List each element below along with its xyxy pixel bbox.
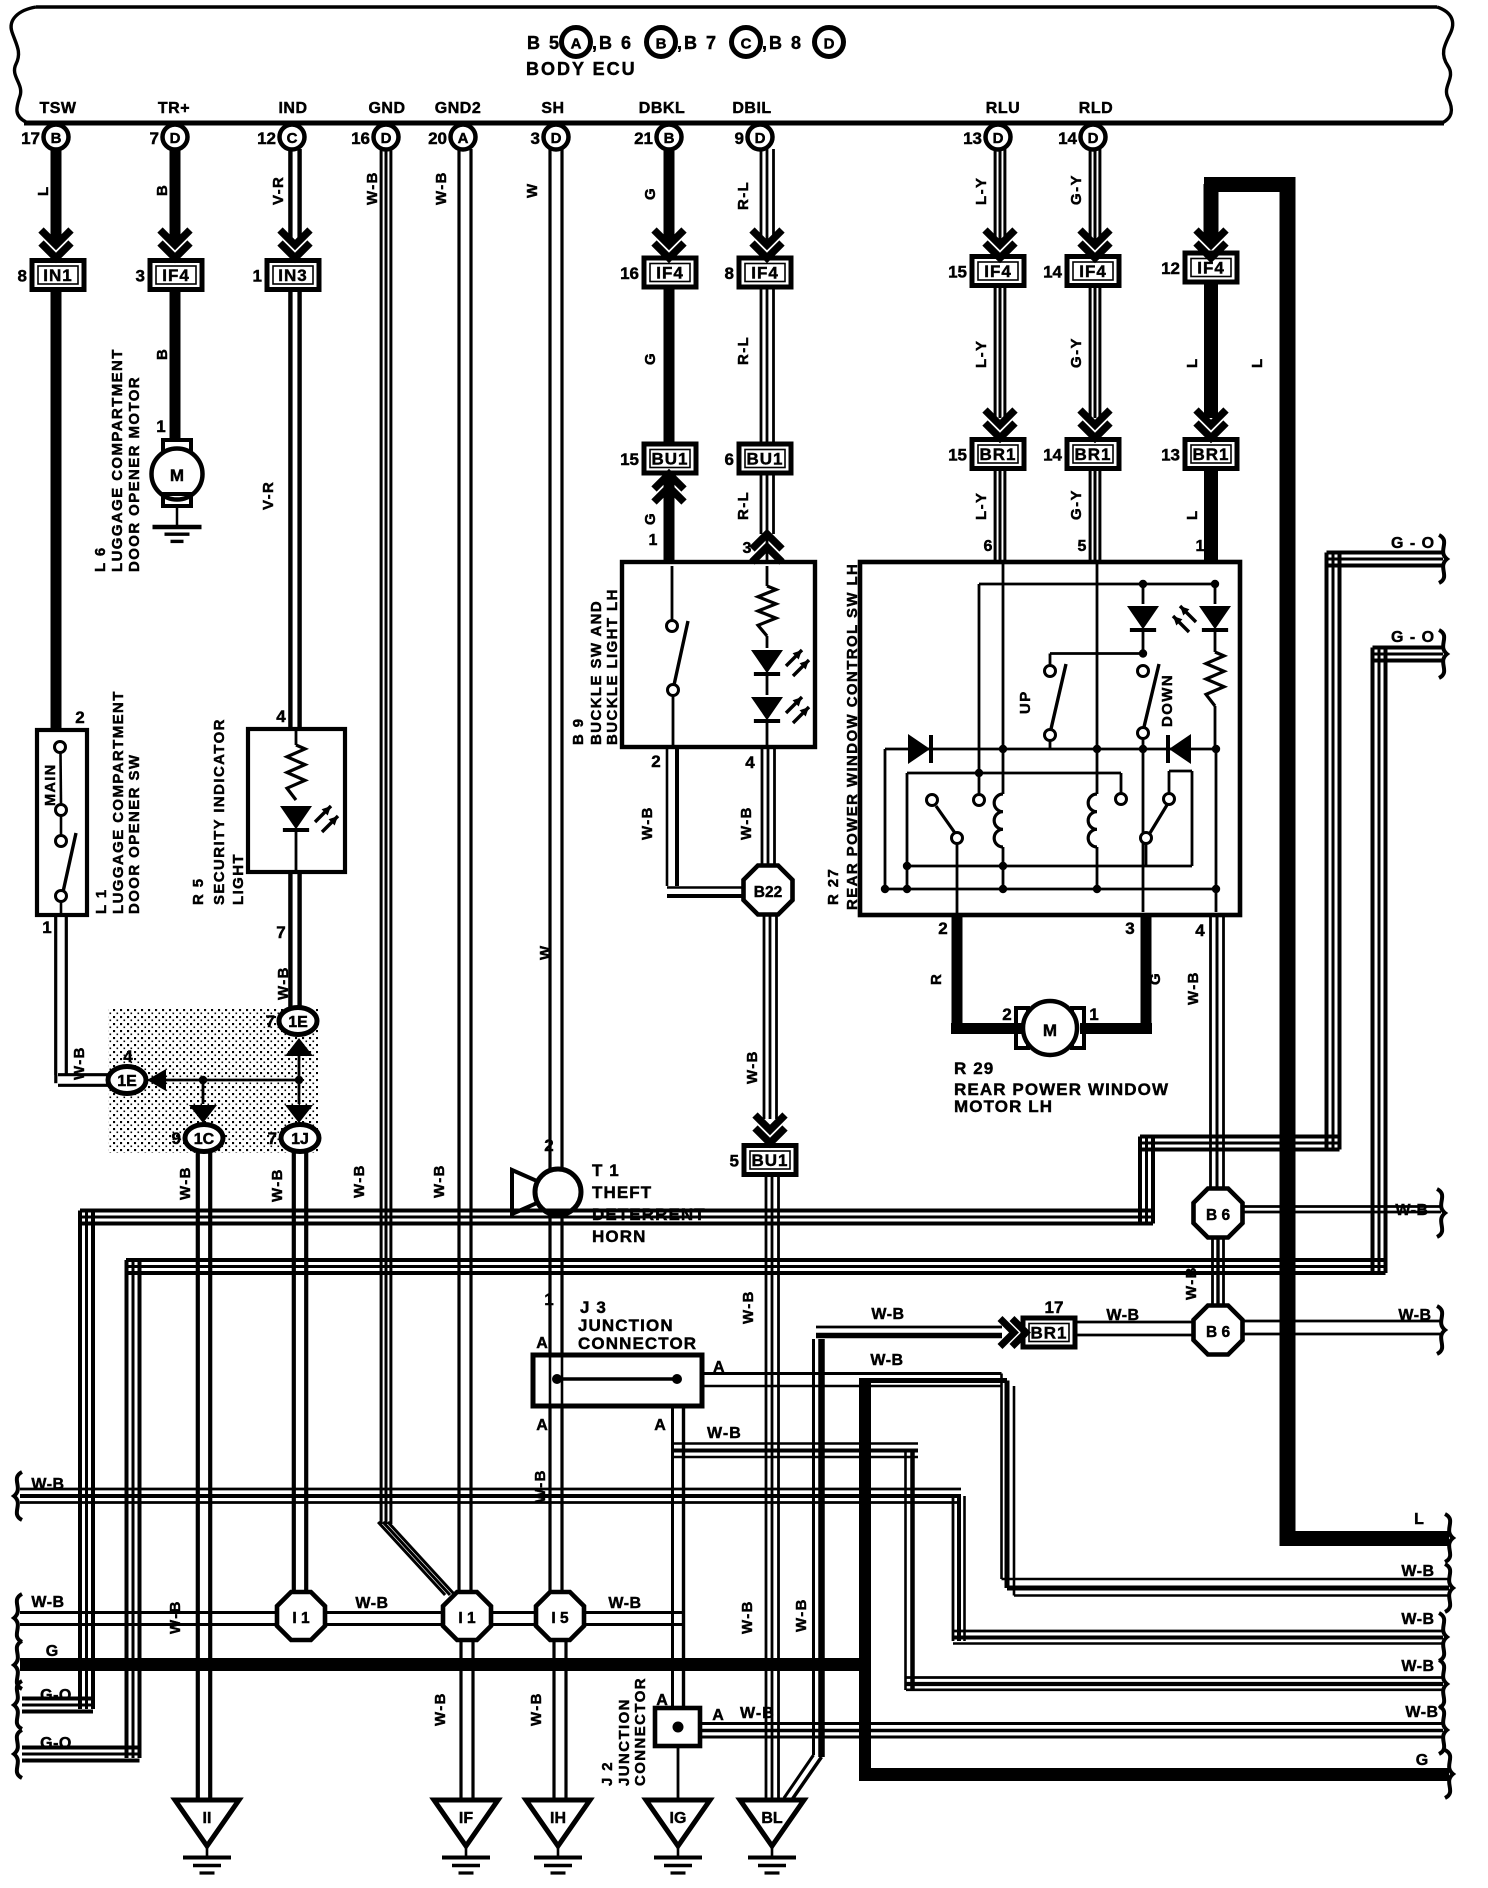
- svg-text:G-Y: G-Y: [1068, 174, 1085, 205]
- svg-text:W-B: W-B: [1401, 1611, 1434, 1628]
- svg-text:R-L: R-L: [735, 336, 752, 365]
- svg-text:RLU: RLU: [986, 100, 1020, 117]
- svg-text:L: L: [1184, 509, 1201, 520]
- svg-text:BR1: BR1: [979, 445, 1016, 464]
- svg-text:L: L: [1414, 1511, 1424, 1528]
- svg-text:W-B: W-B: [707, 1425, 742, 1442]
- svg-text:LUGGAGE COMPARTMENT: LUGGAGE COMPARTMENT: [109, 348, 126, 572]
- svg-text:HORN: HORN: [592, 1227, 646, 1246]
- svg-text:CONNECTOR: CONNECTOR: [578, 1334, 697, 1353]
- svg-text:A: A: [571, 36, 582, 53]
- svg-text:B 9: B 9: [570, 717, 587, 745]
- svg-text:6: 6: [984, 538, 993, 555]
- svg-text:W-B: W-B: [639, 806, 656, 840]
- svg-text:I 1: I 1: [292, 1610, 310, 1627]
- svg-text:W-B: W-B: [275, 966, 292, 1000]
- svg-text:,B 8: ,B 8: [762, 33, 803, 53]
- svg-text:IG: IG: [670, 1810, 687, 1827]
- svg-text:L: L: [35, 185, 52, 196]
- svg-text:R: R: [928, 973, 945, 985]
- svg-text:IND: IND: [278, 100, 307, 117]
- svg-text:LIGHT: LIGHT: [230, 853, 247, 905]
- svg-text:IN3: IN3: [278, 266, 307, 285]
- svg-text:4: 4: [1195, 921, 1205, 940]
- svg-text:TR+: TR+: [158, 100, 190, 117]
- svg-text:G-O: G-O: [40, 1687, 72, 1704]
- svg-text:IN1: IN1: [43, 266, 72, 285]
- svg-text:W: W: [537, 944, 554, 960]
- svg-text:BU1: BU1: [751, 1151, 788, 1170]
- svg-text:II: II: [203, 1810, 212, 1827]
- svg-text:3: 3: [743, 540, 752, 557]
- svg-text:W-B: W-B: [528, 1692, 545, 1726]
- svg-text:2: 2: [938, 919, 947, 938]
- svg-text:LUGGAGE COMPARTMENT: LUGGAGE COMPARTMENT: [110, 690, 127, 914]
- svg-text:B: B: [656, 36, 667, 53]
- svg-text:I 1: I 1: [458, 1610, 476, 1627]
- svg-text:B 6: B 6: [1206, 1207, 1231, 1224]
- svg-text:G: G: [1147, 972, 1164, 985]
- svg-text:SECURITY INDICATOR: SECURITY INDICATOR: [211, 718, 228, 905]
- svg-text:W-B: W-B: [1405, 1704, 1438, 1721]
- svg-text:W-B: W-B: [432, 1692, 449, 1726]
- svg-text:D: D: [755, 130, 766, 147]
- svg-text:L: L: [1184, 357, 1201, 368]
- svg-text:8: 8: [18, 267, 27, 286]
- svg-text:G - O: G - O: [1391, 629, 1435, 646]
- svg-text:L-Y: L-Y: [973, 492, 990, 520]
- svg-text:L: L: [1249, 357, 1266, 368]
- svg-text:D: D: [170, 130, 181, 147]
- svg-text:M: M: [1043, 1021, 1057, 1040]
- svg-text:W-B: W-B: [740, 1290, 757, 1324]
- svg-text:D: D: [993, 130, 1004, 147]
- svg-text:BUCKLE SW AND: BUCKLE SW AND: [588, 600, 605, 745]
- svg-text:MAIN: MAIN: [43, 763, 59, 806]
- svg-text:BODY ECU: BODY ECU: [526, 59, 637, 79]
- svg-text:4: 4: [123, 1047, 133, 1066]
- svg-text:3: 3: [1125, 919, 1134, 938]
- svg-text:1: 1: [156, 417, 165, 436]
- svg-text:JUNCTION: JUNCTION: [578, 1316, 674, 1335]
- svg-text:14: 14: [1043, 263, 1062, 282]
- svg-text:1C: 1C: [194, 1131, 215, 1148]
- svg-text:14: 14: [1058, 129, 1077, 148]
- svg-text:L-Y: L-Y: [973, 340, 990, 368]
- svg-text:IF4: IF4: [1079, 262, 1107, 281]
- svg-text:1: 1: [1089, 1005, 1098, 1024]
- svg-text:A: A: [536, 1335, 548, 1352]
- svg-text:W-B: W-B: [608, 1595, 641, 1612]
- svg-text:9: 9: [172, 1129, 181, 1148]
- svg-text:W-B: W-B: [31, 1594, 64, 1611]
- svg-text:THEFT: THEFT: [592, 1183, 652, 1202]
- svg-text:13: 13: [963, 129, 982, 148]
- svg-text:B 6: B 6: [1206, 1324, 1231, 1341]
- svg-text:D: D: [1088, 130, 1099, 147]
- svg-text:B: B: [51, 130, 62, 147]
- svg-text:17: 17: [21, 129, 40, 148]
- svg-text:4: 4: [745, 753, 755, 772]
- svg-text:W-B: W-B: [71, 1046, 88, 1080]
- svg-text:6: 6: [725, 450, 734, 469]
- svg-text:V-R: V-R: [260, 481, 277, 510]
- svg-text:W-B: W-B: [1401, 1658, 1434, 1675]
- svg-text:B22: B22: [754, 884, 782, 901]
- svg-text:5: 5: [1078, 538, 1087, 555]
- svg-text:2: 2: [651, 752, 660, 771]
- svg-text:W-B: W-B: [738, 806, 755, 840]
- svg-text:W-B: W-B: [31, 1476, 64, 1493]
- svg-text:,B 7: ,B 7: [677, 33, 718, 53]
- svg-text:R 29: R 29: [954, 1059, 994, 1078]
- svg-text:DOWN: DOWN: [1159, 674, 1176, 727]
- svg-text:A: A: [536, 1417, 548, 1434]
- svg-text:16: 16: [620, 264, 639, 283]
- svg-text:1: 1: [1196, 538, 1205, 555]
- svg-text:IF4: IF4: [162, 266, 190, 285]
- svg-text:W-B: W-B: [167, 1600, 184, 1634]
- svg-text:L-Y: L-Y: [973, 177, 990, 205]
- svg-text:SH: SH: [541, 100, 564, 117]
- svg-text:15: 15: [948, 263, 967, 282]
- svg-text:G-Y: G-Y: [1068, 337, 1085, 368]
- svg-text:13: 13: [1161, 446, 1180, 465]
- svg-text:W-B: W-B: [433, 171, 450, 205]
- svg-text:14: 14: [1043, 446, 1062, 465]
- svg-text:I 5: I 5: [551, 1610, 569, 1627]
- svg-text:IF4: IF4: [656, 264, 684, 283]
- svg-text:7: 7: [266, 1012, 275, 1031]
- svg-text:R-L: R-L: [735, 181, 752, 210]
- svg-text:IH: IH: [550, 1810, 566, 1827]
- svg-text:JUNCTION: JUNCTION: [616, 1698, 633, 1786]
- svg-text:R-L: R-L: [735, 491, 752, 520]
- svg-text:,B 6: ,B 6: [592, 33, 633, 53]
- svg-text:BU1: BU1: [746, 450, 783, 469]
- svg-text:W-B: W-B: [871, 1306, 904, 1323]
- svg-text:MOTOR LH: MOTOR LH: [954, 1097, 1053, 1116]
- svg-text:1E: 1E: [117, 1073, 137, 1090]
- svg-text:W-B: W-B: [870, 1352, 903, 1369]
- svg-text:BR1: BR1: [1074, 445, 1111, 464]
- svg-text:G-O: G-O: [40, 1735, 72, 1752]
- svg-text:W-B: W-B: [351, 1164, 368, 1198]
- svg-text:W-B: W-B: [793, 1598, 810, 1632]
- svg-text:A: A: [458, 130, 469, 147]
- svg-text:BR1: BR1: [1192, 445, 1229, 464]
- svg-text:4: 4: [276, 707, 286, 726]
- svg-text:J 2: J 2: [599, 1761, 616, 1786]
- svg-text:R 27: R 27: [825, 868, 842, 905]
- svg-text:B 5: B 5: [527, 33, 561, 53]
- svg-text:21: 21: [634, 129, 653, 148]
- svg-text:1: 1: [649, 532, 658, 549]
- svg-text:12: 12: [1161, 259, 1180, 278]
- svg-text:G - O: G - O: [1391, 535, 1435, 552]
- svg-text:CONNECTOR: CONNECTOR: [632, 1677, 649, 1786]
- svg-text:M: M: [170, 466, 184, 485]
- svg-text:9: 9: [735, 129, 744, 148]
- svg-text:3: 3: [136, 267, 145, 286]
- svg-text:D: D: [824, 36, 835, 53]
- svg-text:7: 7: [276, 923, 285, 942]
- svg-text:V-R: V-R: [270, 176, 287, 205]
- svg-text:G-Y: G-Y: [1068, 489, 1085, 520]
- svg-text:IF4: IF4: [1197, 259, 1225, 278]
- svg-text:W-B: W-B: [740, 1705, 775, 1722]
- svg-text:RLD: RLD: [1079, 100, 1113, 117]
- svg-text:L 1: L 1: [93, 888, 110, 914]
- svg-text:BU1: BU1: [651, 450, 688, 469]
- svg-text:W-B: W-B: [1106, 1307, 1139, 1324]
- svg-text:W: W: [524, 182, 541, 198]
- svg-text:G: G: [46, 1643, 58, 1660]
- svg-text:BUCKLE LIGHT LH: BUCKLE LIGHT LH: [604, 588, 621, 745]
- svg-text:DOOR OPENER SW: DOOR OPENER SW: [126, 754, 143, 914]
- svg-text:B: B: [664, 130, 675, 147]
- svg-text:L 6: L 6: [92, 546, 109, 572]
- svg-text:W-B: W-B: [739, 1600, 756, 1634]
- svg-text:W-B: W-B: [269, 1168, 286, 1202]
- svg-text:2: 2: [75, 708, 84, 727]
- svg-text:W-B: W-B: [744, 1050, 761, 1084]
- svg-text:D: D: [551, 130, 562, 147]
- svg-text:UP: UP: [1017, 690, 1034, 714]
- svg-text:W-B: W-B: [1398, 1307, 1431, 1324]
- svg-text:IF: IF: [459, 1810, 473, 1827]
- svg-text:DOOR OPENER MOTOR: DOOR OPENER MOTOR: [126, 376, 143, 572]
- svg-text:IF4: IF4: [984, 262, 1012, 281]
- svg-text:W-B: W-B: [1401, 1563, 1434, 1580]
- svg-text:G: G: [642, 187, 659, 200]
- svg-text:8: 8: [725, 264, 734, 283]
- svg-text:12: 12: [257, 129, 276, 148]
- svg-text:GND: GND: [368, 100, 405, 117]
- svg-text:BL: BL: [761, 1810, 783, 1827]
- svg-text:W-B: W-B: [1185, 971, 1202, 1005]
- svg-text:BR1: BR1: [1030, 1324, 1067, 1343]
- svg-text:D: D: [381, 130, 392, 147]
- svg-text:1J: 1J: [291, 1131, 309, 1148]
- svg-text:G: G: [642, 512, 659, 525]
- svg-text:IF4: IF4: [751, 264, 779, 283]
- svg-text:W-B: W-B: [1395, 1202, 1428, 1219]
- svg-text:TSW: TSW: [39, 100, 76, 117]
- svg-text:A: A: [656, 1692, 668, 1709]
- svg-text:C: C: [741, 36, 752, 53]
- svg-text:1E: 1E: [288, 1014, 308, 1031]
- svg-text:GND2: GND2: [435, 100, 481, 117]
- svg-text:DBIL: DBIL: [732, 100, 771, 117]
- svg-text:1: 1: [253, 267, 262, 286]
- svg-text:G: G: [642, 352, 659, 365]
- svg-text:16: 16: [351, 129, 370, 148]
- svg-text:W-B: W-B: [364, 171, 381, 205]
- svg-text:A: A: [654, 1417, 666, 1434]
- svg-text:DETERRENT: DETERRENT: [592, 1205, 706, 1224]
- svg-text:T 1: T 1: [592, 1161, 620, 1180]
- svg-text:W-B: W-B: [431, 1164, 448, 1198]
- svg-text:W-B: W-B: [177, 1166, 194, 1200]
- svg-text:A: A: [712, 1707, 724, 1724]
- svg-text:7: 7: [150, 129, 159, 148]
- svg-text:15: 15: [620, 450, 639, 469]
- svg-text:C: C: [287, 130, 298, 147]
- svg-text:B: B: [154, 348, 171, 360]
- svg-text:R 5: R 5: [190, 877, 207, 905]
- svg-text:2: 2: [544, 1136, 553, 1155]
- svg-text:20: 20: [428, 129, 447, 148]
- svg-text:1: 1: [42, 918, 51, 937]
- svg-text:5: 5: [730, 1152, 739, 1171]
- svg-text:G: G: [1416, 1752, 1428, 1769]
- svg-text:B: B: [154, 184, 171, 196]
- svg-text:17: 17: [1045, 1298, 1064, 1317]
- svg-text:W-B: W-B: [355, 1595, 388, 1612]
- svg-text:REAR POWER WINDOW CONTROL SW L: REAR POWER WINDOW CONTROL SW LH: [844, 563, 861, 910]
- svg-text:DBKL: DBKL: [639, 100, 685, 117]
- svg-text:J 3: J 3: [580, 1298, 607, 1317]
- svg-text:15: 15: [948, 446, 967, 465]
- svg-text:3: 3: [531, 129, 540, 148]
- svg-text:2: 2: [1002, 1005, 1011, 1024]
- svg-text:7: 7: [268, 1129, 277, 1148]
